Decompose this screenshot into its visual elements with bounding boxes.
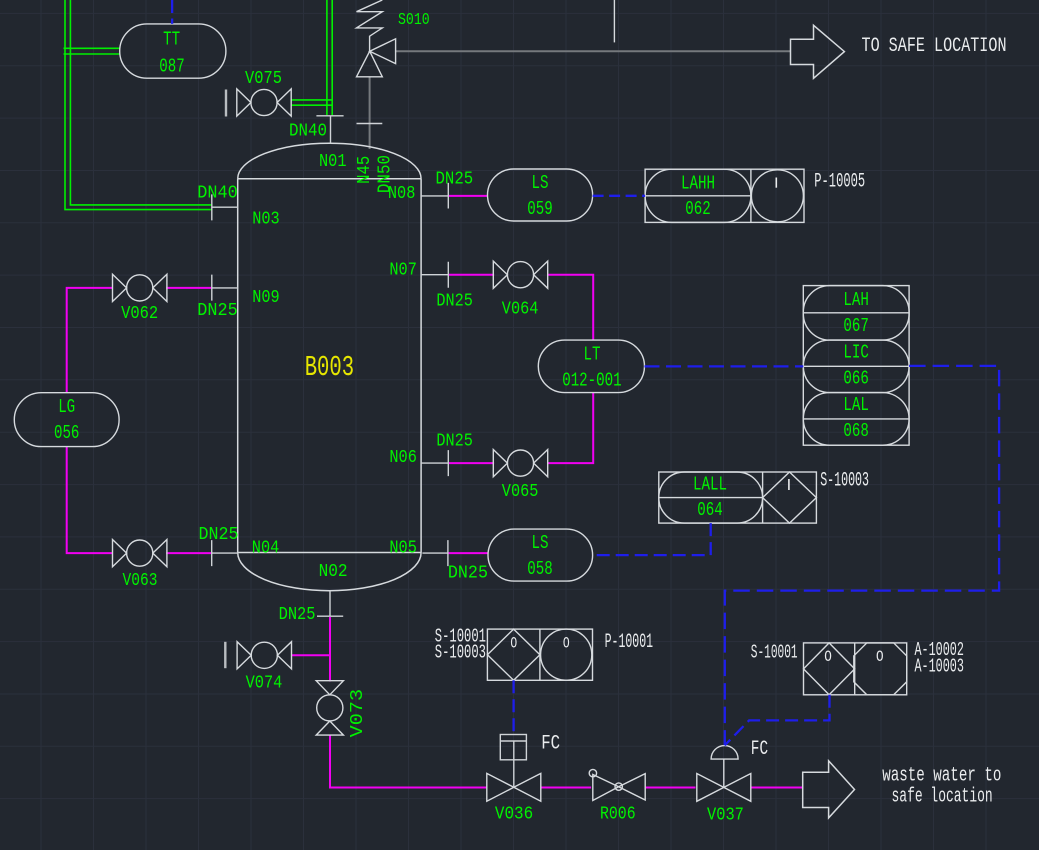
label LAL 068	[843, 394, 869, 442]
svg-text:N06: N06	[389, 448, 417, 468]
instrument box A-10002 A-10003	[804, 643, 907, 695]
svg-text:B003: B003	[305, 351, 354, 384]
wire white stub line top middle	[613, 0, 615, 42]
pipe gray relief outlet to safe location	[396, 50, 791, 52]
relief valve S010 spring	[357, 0, 383, 51]
valve V074	[237, 642, 291, 669]
signal blue dashed TT 087 top	[171, 0, 173, 24]
svg-text:O: O	[876, 648, 884, 666]
svg-text:V063: V063	[123, 571, 158, 591]
solenoid box FC above V036	[500, 735, 526, 788]
label LT 012-001	[562, 344, 622, 392]
valve V074 blind flange	[224, 642, 226, 668]
svg-text:V065: V065	[502, 482, 539, 502]
svg-text:DN40: DN40	[197, 183, 237, 203]
wire magenta LG loop upper: V062 to LG 056	[67, 288, 212, 393]
node N01 nozzle	[316, 116, 343, 144]
label LS 058	[527, 532, 552, 580]
svg-text:068: 068	[843, 420, 868, 442]
pin I in LAHH circle	[775, 178, 777, 188]
svg-text:067: 067	[843, 315, 868, 337]
signal blue dashed LT to LIC	[645, 365, 804, 367]
svg-text:N02: N02	[319, 562, 348, 582]
svg-text:R006: R006	[600, 805, 636, 825]
signal blue dashed LALL to LS 058	[593, 523, 711, 555]
valve V062	[113, 274, 167, 301]
wire magenta N08 to LS 059	[448, 195, 487, 197]
pin I in LALL diamond	[788, 479, 790, 490]
wire magenta N06 to V065 to LT bottom	[448, 393, 593, 464]
svg-text:N45: N45	[355, 156, 375, 184]
svg-text:DN25: DN25	[199, 525, 239, 545]
node N07 nozzle	[421, 262, 448, 288]
label LS 059	[527, 172, 552, 220]
instrument LT 012-001	[538, 340, 644, 393]
instrument LS 059	[488, 169, 593, 221]
svg-text:DN25: DN25	[436, 432, 473, 452]
valve V037 actuator FC	[711, 746, 738, 788]
svg-text:058: 058	[527, 558, 552, 580]
wire magenta R006 to V037	[645, 787, 696, 789]
node N08 nozzle	[421, 183, 448, 209]
svg-text:DN25: DN25	[197, 301, 237, 321]
svg-text:062: 062	[685, 198, 710, 220]
svg-text:064: 064	[697, 499, 722, 521]
vessel B003 outline	[238, 143, 421, 591]
svg-text:S010: S010	[398, 10, 430, 29]
svg-text:V074: V074	[246, 674, 283, 694]
svg-text:TO SAFE LOCATION: TO SAFE LOCATION	[862, 35, 1007, 58]
pipe gray relief inlet from vessel	[369, 77, 371, 149]
svg-text:LALL: LALL	[693, 474, 727, 496]
node N04 nozzle	[212, 540, 239, 566]
svg-text:V062: V062	[121, 304, 158, 324]
svg-text:056: 056	[54, 422, 79, 444]
svg-text:P-10001: P-10001	[605, 631, 654, 654]
svg-text:V064: V064	[502, 300, 539, 320]
arrow to safe location	[791, 25, 845, 78]
valve V073 vertical	[316, 681, 343, 735]
svg-text:LS: LS	[532, 532, 549, 554]
svg-text:N08: N08	[388, 184, 416, 204]
svg-text:LAHH: LAHH	[681, 173, 715, 195]
svg-text:V073: V073	[348, 689, 368, 738]
node N09 nozzle	[212, 275, 238, 301]
svg-text:N04: N04	[252, 539, 279, 559]
node N02 nozzle	[317, 591, 343, 617]
svg-text:V075: V075	[245, 69, 282, 89]
svg-text:LS: LS	[532, 172, 549, 194]
wire magenta LG loop lower: LG 056 to V063 to N04	[67, 447, 212, 553]
label LAHH 062	[681, 173, 715, 221]
svg-text:O: O	[824, 648, 832, 666]
svg-text:066: 066	[843, 368, 868, 390]
svg-text:waste water to: waste water to	[882, 765, 1001, 788]
arrow waste water outlet	[803, 761, 855, 818]
label LALL 064	[693, 474, 727, 522]
relief valve S010 body	[357, 39, 396, 77]
svg-text:N07: N07	[389, 261, 417, 281]
label LAH 067	[843, 289, 869, 337]
pipe green branch to TT 087	[64, 48, 120, 54]
wire magenta N07 to V064 to LT top	[448, 275, 593, 340]
node N45 DN50 nozzle flange	[357, 123, 383, 125]
instrument stack LAH 067 LIC 066 LAL 068	[803, 286, 909, 446]
label TT 087	[159, 29, 184, 78]
pipe green branch from valve V075	[291, 100, 332, 105]
wire magenta N02 drop to V073	[329, 617, 331, 682]
instrument LS 058	[488, 529, 593, 581]
wire magenta V037 to outlet arrow	[751, 787, 803, 789]
svg-text:S-10001: S-10001	[751, 642, 798, 664]
svg-text:DN25: DN25	[436, 292, 473, 312]
signal blue dashed A-box branch to V037 actuator	[725, 695, 830, 746]
svg-text:012-001: 012-001	[562, 370, 622, 392]
label LIC 066	[843, 342, 869, 390]
svg-text:N01: N01	[319, 152, 347, 172]
valve V063	[113, 540, 167, 567]
svg-text:N09: N09	[252, 288, 280, 308]
instrument LG 056	[14, 393, 119, 447]
instrument TT 087	[120, 24, 226, 78]
label waste water to safe location	[882, 765, 1001, 809]
svg-text:DN25: DN25	[279, 605, 316, 625]
pipe green double line header left	[65, 0, 212, 210]
instrument box P-10001 start stop	[487, 629, 592, 680]
svg-text:DN25: DN25	[448, 564, 488, 584]
svg-text:V037: V037	[707, 806, 744, 826]
wire magenta V074 branch	[291, 654, 330, 656]
instrument LALL 064 with interlock S-10003	[659, 472, 817, 523]
node N03 nozzle	[212, 194, 238, 220]
svg-text:S-10003: S-10003	[820, 470, 869, 493]
label LG 056	[54, 396, 79, 444]
svg-text:059: 059	[527, 198, 552, 220]
svg-text:LT: LT	[584, 344, 601, 366]
label S-10001 S-10003 at P-10001 box	[435, 626, 486, 664]
wire magenta V036 to R006	[541, 787, 591, 789]
svg-text:V036: V036	[495, 805, 533, 825]
valve V065	[493, 450, 547, 477]
valve V037	[697, 774, 751, 802]
wire magenta V073 to V036	[330, 735, 487, 788]
svg-text:O: O	[563, 635, 570, 653]
signal blue dashed LIC to V037 actuator	[725, 366, 999, 745]
svg-text:safe location: safe location	[892, 785, 993, 808]
svg-text:P-10005: P-10005	[814, 171, 865, 194]
label A-10002 A-10003	[915, 639, 964, 678]
svg-text:DN25: DN25	[436, 170, 474, 190]
signal blue dashed LS 059 to LAHH	[593, 195, 646, 197]
svg-text:LIC: LIC	[843, 342, 869, 364]
svg-text:TT: TT	[163, 29, 180, 51]
node N06 nozzle	[421, 450, 448, 476]
signal blue dashed P-10001 to solenoid FC	[512, 680, 514, 734]
svg-text:LAL: LAL	[843, 394, 869, 416]
svg-text:087: 087	[159, 56, 184, 78]
svg-text:DN40: DN40	[289, 122, 327, 142]
valve V064	[493, 261, 547, 288]
svg-text:S-10003: S-10003	[435, 642, 486, 664]
pipe green vertical at N01	[327, 0, 332, 115]
valve V036	[487, 773, 541, 801]
restriction orifice R006	[589, 769, 645, 800]
instrument LAHH 062 with alarm light P-10005	[645, 169, 804, 222]
valve V075	[237, 89, 291, 116]
svg-text:O: O	[510, 635, 517, 653]
svg-text:FC: FC	[541, 733, 560, 756]
svg-text:LG: LG	[58, 396, 75, 418]
svg-text:N03: N03	[252, 210, 280, 230]
svg-text:N05: N05	[389, 539, 417, 559]
svg-text:FC: FC	[751, 738, 768, 761]
wire magenta N05 to LS 058	[448, 552, 488, 554]
svg-text:A-10003: A-10003	[915, 656, 964, 678]
valve V075 blind flange	[225, 90, 227, 117]
svg-text:LAH: LAH	[843, 289, 869, 311]
node N05 nozzle	[422, 540, 448, 566]
